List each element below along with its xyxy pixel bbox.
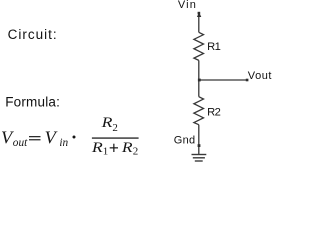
svg-text:Circuit:: Circuit: — [8, 27, 58, 42]
svg-text:R2: R2 — [207, 107, 220, 119]
svg-text:Vin: Vin — [178, 0, 197, 11]
resistor R1 zigzag — [194, 32, 204, 60]
svg-text:R: R — [121, 140, 133, 156]
svg-text:2: 2 — [112, 122, 118, 134]
wire R2 to ground — [198, 125, 200, 155]
svg-text:2: 2 — [133, 146, 139, 158]
svg-text:R1: R1 — [207, 41, 220, 53]
svg-text:Vout: Vout — [248, 70, 272, 82]
svg-text:1: 1 — [103, 146, 109, 158]
Vout terminal dot — [246, 79, 249, 82]
formula middle dot — [73, 136, 76, 139]
formula equals sign — [29, 136, 41, 137]
Gnd terminal dot — [198, 144, 201, 147]
svg-text:Gnd: Gnd — [174, 135, 196, 147]
svg-text:Formula:: Formula: — [5, 95, 60, 110]
ground symbol — [192, 155, 207, 162]
svg-text:out: out — [13, 137, 28, 149]
svg-text:V: V — [45, 128, 58, 148]
svg-text:R: R — [100, 115, 112, 131]
Vin terminal arrow — [197, 12, 201, 17]
svg-text:R: R — [91, 140, 103, 156]
node dot (junction) — [198, 79, 201, 82]
wire R1 to node — [198, 60, 200, 80]
resistor R2 zigzag — [194, 97, 204, 125]
wire Vin terminal to R1 — [198, 15, 200, 33]
formula Vout = Vin * R2/(R1+R2) — [1, 115, 139, 158]
fraction bar — [92, 137, 139, 138]
wire node to Vout terminal — [199, 79, 248, 81]
svg-text:in: in — [59, 137, 68, 149]
wire node to R2 — [198, 80, 200, 97]
